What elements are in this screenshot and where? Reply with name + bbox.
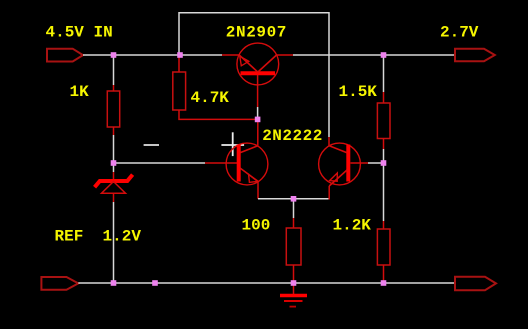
transistor 2N2222 left body (226, 143, 268, 185)
wire pin Q3 collector top (328, 137, 330, 146)
port GND left arrow (41, 277, 78, 290)
port 2.7V arrow (455, 49, 495, 62)
wire zener to bottom rail (113, 202, 115, 283)
ground symbol (280, 296, 307, 307)
transistor 2N2222 left base pin (205, 162, 237, 164)
port output bottom arrow (455, 277, 496, 290)
port 4.5V IN arrow (47, 49, 83, 62)
svg-text:1.2K: 1.2K (333, 216, 372, 234)
resistor 100 (286, 228, 301, 265)
junction (381, 160, 387, 166)
svg-text:2.7V: 2.7V (440, 23, 479, 41)
transistor 2N2222 right emitter pin (328, 186, 330, 200)
transistor 2N2907 emitter pin (222, 54, 240, 56)
resistor 1.2K (377, 229, 390, 265)
resistor 100 pin bottom (293, 265, 295, 283)
wire from top rail to 1K (113, 58, 115, 86)
wire node to 1.2K (383, 163, 385, 221)
junction (381, 52, 387, 58)
svg-text:100: 100 (242, 216, 271, 234)
ground pin (293, 283, 295, 294)
svg-text:2N2222: 2N2222 (262, 127, 323, 145)
svg-text:4.7K: 4.7K (191, 89, 230, 107)
resistor 1.5K pin top (383, 92, 385, 103)
wire top rail right (293, 54, 455, 56)
zener diode REF bar (95, 175, 133, 188)
zener diode REF cathode pin (113, 172, 115, 180)
resistor 1.2K pin bottom (383, 265, 385, 283)
junction (152, 280, 158, 286)
transistor 2N2907 base pin (257, 75, 259, 107)
transistor 2N2907 body (237, 43, 279, 85)
resistor 4.7K pin top (178, 58, 180, 73)
cursor dash (144, 144, 159, 146)
junction (381, 280, 387, 286)
wire output rail to 1.5K (383, 58, 385, 93)
transistor 2N2222 left emitter pin (257, 182, 259, 199)
resistor 4.7K (173, 72, 186, 110)
resistor 1K pin bottom (113, 127, 115, 135)
transistor 2N2907 collector pin (277, 54, 294, 56)
wire bottom rail (78, 282, 455, 284)
resistor 1.5K (377, 103, 390, 139)
wire 1K to zener (113, 135, 115, 172)
transistor 2N2222 right base pin (351, 162, 369, 164)
wire emitter rail (258, 198, 329, 200)
svg-text:1K: 1K (70, 83, 90, 101)
junction (255, 117, 261, 123)
cursor crosshair (221, 132, 244, 156)
wire base to divider node (368, 162, 384, 164)
resistor 100 pin top (293, 218, 295, 228)
wire top feedback rectangle (179, 13, 329, 137)
svg-text:1.5K: 1.5K (339, 83, 378, 101)
wire 1.5K to node (383, 149, 385, 163)
wire base node (257, 107, 259, 119)
resistor 1.2K pin top (383, 221, 385, 229)
wire 4.7K to Q1 base node (179, 110, 255, 119)
junction (291, 196, 297, 202)
zener diode REF triangle (102, 182, 126, 194)
junction (111, 160, 117, 166)
resistor 1.5K pin bottom (383, 139, 385, 150)
wire ref node to Q2 base (116, 162, 205, 164)
junction (111, 52, 117, 58)
resistor 1K pin top (113, 85, 115, 91)
svg-text:4.5V IN: 4.5V IN (46, 24, 113, 42)
junction (177, 52, 183, 58)
svg-text:2N2907: 2N2907 (226, 24, 287, 42)
wire junction to 100 (293, 199, 295, 218)
wire top rail left (83, 54, 222, 56)
transistor 2N2222 right body (319, 143, 361, 186)
junction (291, 280, 297, 286)
wire node to Q2 collector (257, 119, 259, 145)
resistor 1K (107, 91, 119, 127)
junction (111, 280, 117, 286)
zener diode REF anode pin (113, 193, 115, 202)
svg-text:REF 1.2V: REF 1.2V (55, 228, 142, 246)
